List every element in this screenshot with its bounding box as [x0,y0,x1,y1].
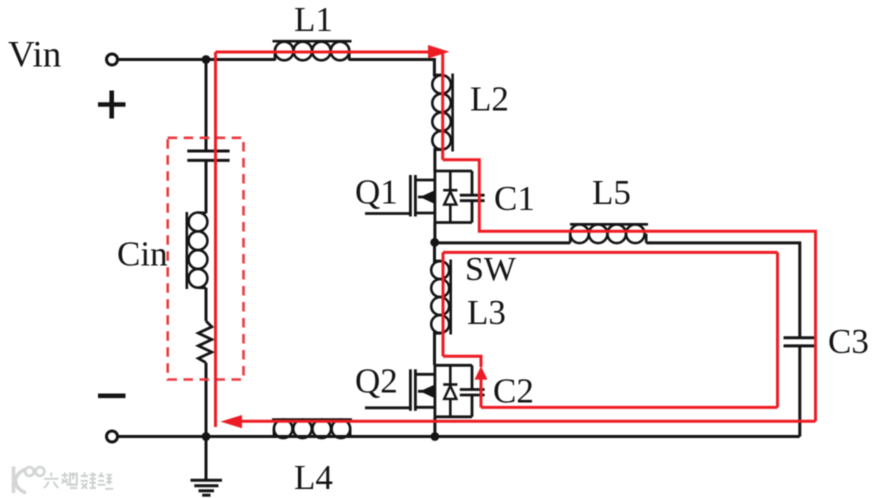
transistor Q2 [365,365,472,417]
label Cin [117,235,168,274]
inductor L3 [431,260,451,335]
label C1 [494,179,535,218]
watermark icon [14,467,45,494]
node Q2 source bottom junction [431,432,440,441]
label Q2 [355,362,398,401]
transistor Q1 [365,171,472,223]
wire left rail cap to coil [205,160,208,213]
ground [191,437,223,496]
parasitic inductor of Cin [187,212,208,289]
wire top rail from Vin terminal to L1 [117,58,275,61]
label L5 [592,173,631,212]
terminal Vin- [107,431,118,442]
inductor L4 [272,420,352,439]
wire C3 bottom to bottom rail [798,346,801,437]
red path through L3 [442,252,445,356]
plus sign [98,91,126,119]
terminal Vin+ [107,54,118,65]
label L4 [294,458,333,497]
wire from Q1 source to SW node [433,223,436,243]
wire bottom rail [117,435,799,438]
inductor L2 [432,74,452,152]
dashed red box around Cin [168,138,244,380]
red jog to C2 [443,356,481,367]
red current path top with arrow [216,45,450,59]
svg-text:C2: C2 [493,372,534,411]
wire from L1 to L2 top jog [349,60,443,76]
label SW [465,251,517,288]
red inner loop bottom [481,406,778,409]
capacitor C3 [784,338,817,346]
red inner loop top [443,251,778,254]
svg-text:Q2: Q2 [355,362,398,401]
red current path bottom with arrow [221,415,816,428]
wire coil to resistor [205,288,208,321]
wire resistor to bottom rail [205,363,208,437]
capacitor Cin (plates) [187,151,229,160]
wire from L3 bottom to Q2 drain [435,333,441,365]
red arrow up through C2 [475,366,488,407]
capacitor C1 [460,171,485,223]
svg-text:Vin: Vin [8,35,61,76]
red inner loop right [776,252,779,407]
wire L5 to C3 top [646,243,800,338]
svg-text:C3: C3 [828,322,869,361]
red path around C1 [443,160,816,422]
wire left rail upper [205,60,208,152]
label L2 [470,80,509,119]
inductor L5 [570,224,648,243]
wire SW node down to L3 [435,243,441,261]
minus sign [98,393,126,398]
svg-text:L2: L2 [470,80,509,119]
node SW junction [430,238,439,247]
capacitor C2 [460,365,485,417]
wire SW node to L5 [435,241,571,244]
inductor L1 [273,41,352,60]
label L3 [467,293,506,332]
label C2 [493,372,534,411]
watermark text [44,472,113,488]
label Vin [8,35,61,76]
svg-text:C1: C1 [494,179,535,218]
svg-text:L4: L4 [294,458,333,497]
svg-text:L5: L5 [592,173,631,212]
node bottom-left junction [202,432,211,441]
node top-left junction [202,55,211,64]
body diode of Q1 [443,171,457,223]
svg-text:Cin: Cin [117,235,168,274]
label Q1 [355,173,398,212]
label L1 [294,0,333,39]
svg-text:SW: SW [465,251,517,288]
wire Q2 source to bottom rail [433,417,436,437]
svg-text:L3: L3 [467,293,506,332]
red path through L2 [441,52,444,160]
red current path left side [214,52,217,427]
wire from L2 bottom to Q1 drain [435,150,443,172]
svg-text:L1: L1 [294,0,333,39]
svg-text:Q1: Q1 [355,173,398,212]
parasitic resistor of Cin [198,321,212,363]
body diode of Q2 [443,365,457,417]
label C3 [828,322,869,361]
